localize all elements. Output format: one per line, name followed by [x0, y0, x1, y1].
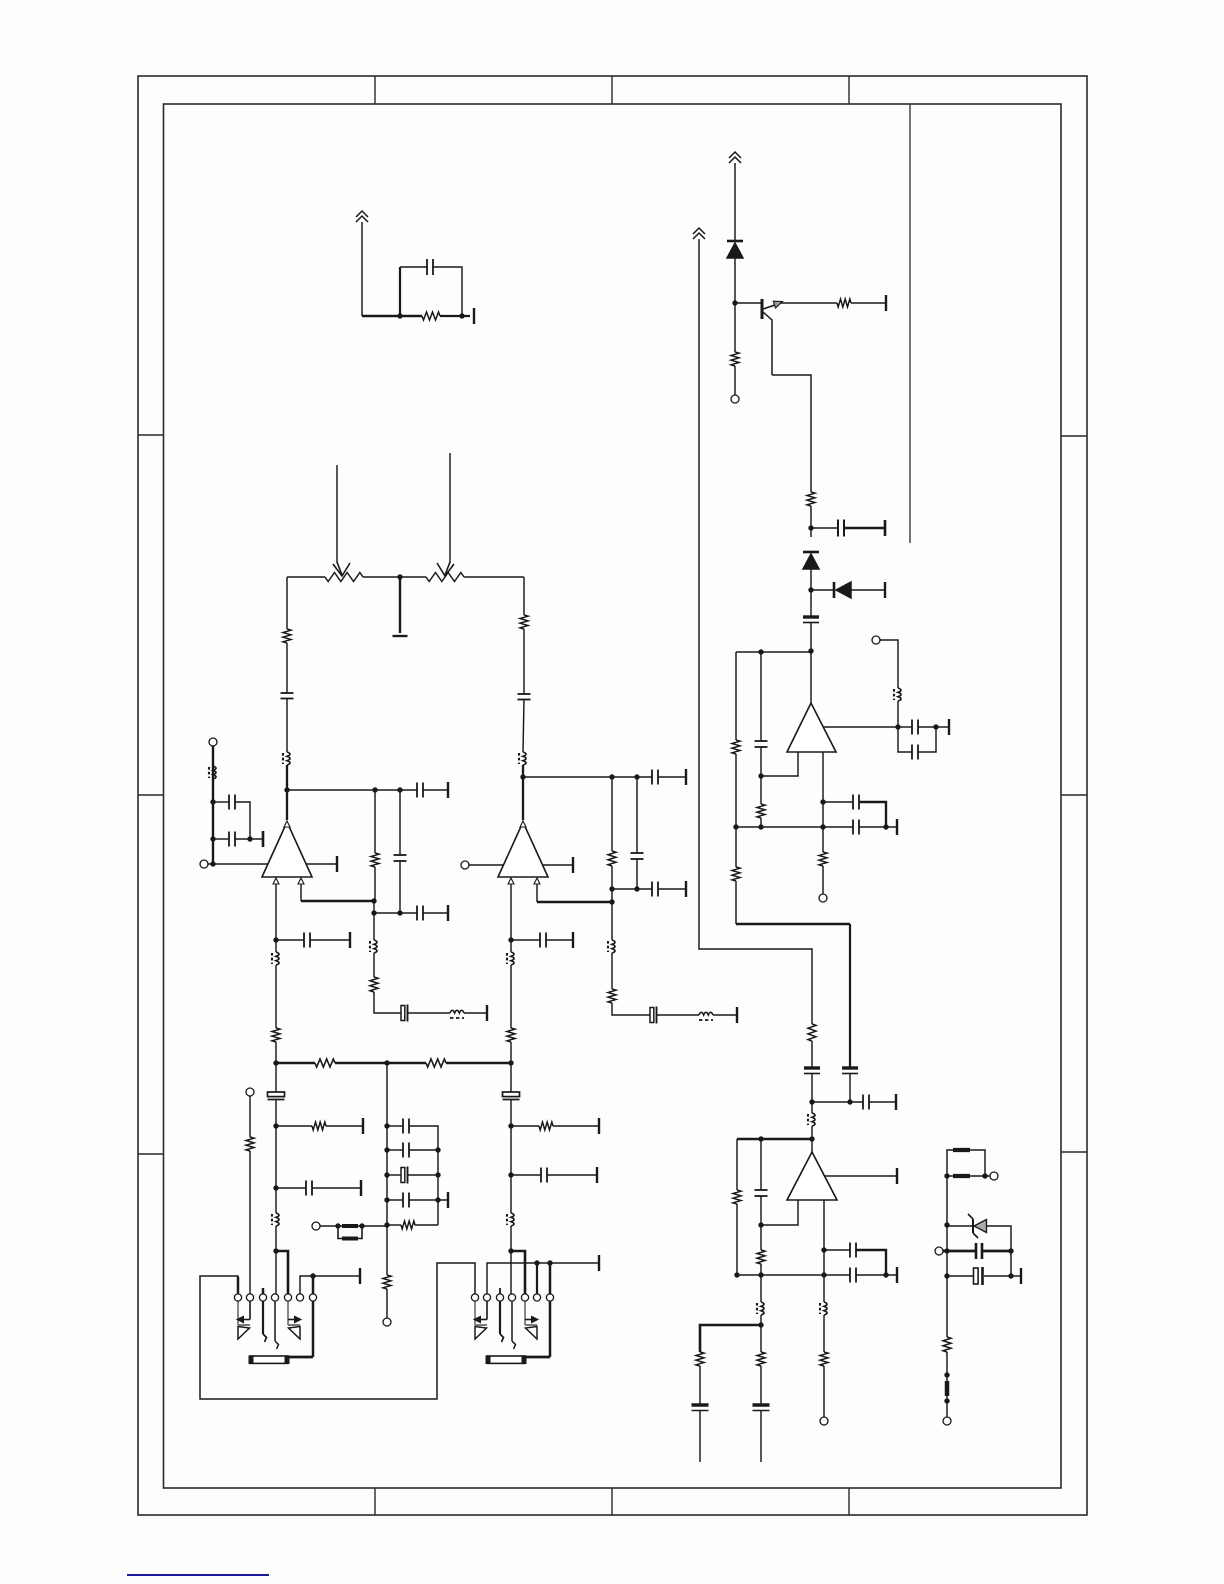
jack pin7 sleeve wire	[549, 1263, 552, 1357]
stub wire	[262, 1288, 265, 1294]
wire	[312, 1187, 361, 1189]
jumper wire	[276, 1251, 288, 1294]
terminal stub	[896, 1267, 898, 1283]
capacitor C9 polarized	[804, 1066, 820, 1069]
resistor R25	[312, 1122, 326, 1130]
zener diode D4	[948, 1225, 973, 1227]
rail terminal	[393, 635, 408, 637]
capacitor C3 polarized	[803, 615, 819, 618]
wire	[810, 622, 812, 652]
terminal stub	[349, 932, 351, 948]
resistor R29	[539, 1122, 553, 1130]
wire	[812, 1101, 863, 1103]
crystal X3	[401, 1168, 405, 1183]
capacitor C30	[631, 852, 644, 854]
terminal T	[819, 894, 827, 902]
terminal stub	[895, 1094, 897, 1110]
capacitor C16 polarized	[753, 1403, 770, 1406]
pin marker	[284, 821, 290, 827]
wire	[844, 527, 885, 529]
node	[808, 525, 813, 530]
node	[435, 1172, 440, 1177]
node	[883, 824, 888, 829]
terminal T input	[461, 861, 469, 869]
node	[384, 1222, 389, 1227]
wire	[310, 939, 350, 941]
capacitor C4	[911, 720, 913, 735]
wire	[823, 801, 853, 803]
wire	[249, 1151, 251, 1294]
jack contact triangle 2	[288, 1324, 300, 1326]
resistor R8	[808, 1024, 816, 1041]
wire output	[542, 864, 573, 866]
diode D1	[727, 240, 743, 243]
resistor R27	[401, 1221, 415, 1229]
ferrite bead L9	[523, 752, 526, 765]
node	[384, 1060, 389, 1065]
wire	[409, 1126, 438, 1225]
wire	[943, 1250, 976, 1253]
node	[371, 910, 376, 915]
node	[944, 1273, 949, 1278]
capacitor C1	[426, 259, 428, 275]
wire	[440, 315, 470, 317]
op-amp U2	[498, 822, 548, 877]
resistor R11	[757, 1250, 765, 1264]
wire	[713, 1014, 737, 1016]
node	[335, 1223, 340, 1228]
jack pin circles	[471, 1294, 478, 1301]
wire	[898, 726, 912, 728]
inductor L5	[953, 1148, 970, 1152]
resistor R13	[757, 1352, 765, 1366]
terminal stub	[896, 819, 898, 835]
ferrite bead L17	[276, 1213, 279, 1226]
terminal stub	[685, 769, 687, 785]
jack tip contact gray	[474, 1301, 476, 1325]
border tick bottom 3	[848, 1488, 850, 1515]
capacitor C37	[540, 1168, 542, 1183]
wire	[880, 640, 898, 688]
node	[273, 1060, 278, 1065]
terminal stub	[896, 1168, 898, 1184]
wire	[300, 1276, 360, 1294]
capacitor C32	[305, 1181, 307, 1196]
wire	[408, 1012, 450, 1014]
capacitor C5	[911, 745, 913, 760]
bus wire	[276, 1062, 315, 1065]
pin marker	[508, 878, 514, 884]
resistor R19	[370, 977, 378, 992]
rail wire	[287, 576, 325, 578]
center tap wire	[399, 577, 401, 633]
wire bus	[737, 1274, 850, 1276]
wire	[810, 590, 812, 617]
border tick left 2	[138, 794, 164, 796]
ferrite bead L2	[812, 1113, 815, 1126]
node	[210, 836, 215, 841]
capacitor C31 polarized	[268, 1092, 285, 1097]
node	[732, 300, 737, 305]
wire	[810, 652, 812, 703]
capacitor C11	[862, 1095, 864, 1110]
resistor R23	[315, 1059, 335, 1067]
node	[508, 1248, 513, 1253]
capacitor C22	[651, 770, 653, 785]
wire	[611, 777, 613, 851]
wire	[735, 754, 737, 867]
wire	[409, 1199, 448, 1201]
terminal T	[209, 738, 217, 746]
op-amp U4	[787, 1152, 837, 1200]
terminal T	[312, 1222, 320, 1230]
terminal T	[990, 1172, 998, 1180]
wire	[522, 765, 524, 820]
wire	[399, 267, 401, 316]
node	[609, 899, 614, 904]
wire	[736, 1204, 738, 1275]
wire	[213, 838, 229, 840]
title column line	[909, 104, 911, 543]
wire	[464, 576, 524, 578]
node	[384, 1147, 389, 1152]
border tick top 3	[848, 76, 850, 104]
wire	[657, 1014, 699, 1016]
wire	[511, 939, 540, 941]
wire output	[823, 726, 898, 728]
capacitor C13	[849, 1268, 851, 1283]
pin marker	[534, 878, 540, 884]
node	[758, 1136, 763, 1141]
jack contact triangle 1	[475, 1324, 487, 1326]
terminal stub	[447, 905, 449, 921]
wire	[275, 1226, 277, 1294]
wire	[849, 1073, 851, 1102]
node	[1008, 1273, 1013, 1278]
wire	[699, 1410, 701, 1462]
wire	[212, 746, 214, 864]
resistor R1	[422, 312, 440, 320]
node	[508, 937, 513, 942]
wire	[276, 1125, 312, 1127]
jack ring contact gray	[287, 1301, 289, 1325]
wire	[735, 881, 737, 924]
wire	[537, 901, 612, 904]
wire	[387, 1149, 403, 1151]
resistor R9	[820, 1352, 828, 1366]
node	[944, 1372, 949, 1377]
wire	[536, 1263, 538, 1294]
wire	[700, 1325, 761, 1352]
node	[435, 1147, 440, 1152]
crystal X1	[401, 1006, 405, 1021]
wire	[811, 1041, 813, 1068]
resistor R21	[608, 851, 616, 866]
node	[944, 1173, 949, 1178]
node	[821, 1272, 826, 1277]
capacitor C35	[402, 1193, 404, 1208]
border tick top 1	[374, 76, 376, 104]
wire pin	[761, 752, 798, 776]
resistor R5	[732, 740, 740, 754]
jumper wire	[511, 1251, 525, 1294]
wire	[851, 302, 886, 304]
capacitor C8	[852, 795, 854, 810]
resistor R15	[283, 629, 291, 643]
potentiometer VR1	[325, 573, 363, 582]
ferrite bead L10	[213, 766, 216, 779]
wire	[856, 1274, 897, 1276]
jack pin7 sleeve wire	[312, 1276, 315, 1357]
wire	[361, 222, 363, 316]
wire	[760, 1196, 762, 1250]
inductor loop wire	[947, 1150, 953, 1176]
jack ring contact gray	[524, 1301, 526, 1325]
node	[609, 886, 614, 891]
wire	[737, 1138, 812, 1141]
capacitor C2	[837, 520, 839, 537]
wire	[547, 1174, 597, 1176]
node	[397, 910, 402, 915]
jack stub	[237, 1277, 240, 1293]
resistor R20	[507, 1028, 515, 1042]
jack sleeve body	[251, 1356, 288, 1363]
jack contact triangle 2	[525, 1324, 537, 1326]
wire	[523, 776, 652, 778]
wire pin	[300, 884, 302, 901]
node	[982, 1173, 987, 1178]
jack switch arrow right	[525, 1319, 533, 1321]
wire	[409, 1149, 438, 1151]
wire	[811, 1073, 813, 1113]
wire	[734, 366, 736, 395]
terminal T	[872, 636, 880, 644]
capacitor C27	[394, 854, 407, 856]
wire	[760, 1275, 762, 1302]
terminal stub	[572, 932, 574, 948]
node	[534, 1260, 539, 1265]
capacitor C24	[228, 832, 230, 847]
wire	[849, 924, 851, 1068]
wire	[822, 866, 824, 894]
capacitor C36 polarized	[503, 1092, 520, 1097]
wire	[523, 629, 525, 694]
wire	[810, 569, 812, 590]
wire	[374, 790, 376, 853]
border tick top 2	[611, 76, 613, 104]
node	[820, 824, 825, 829]
op-amp U3	[787, 703, 836, 752]
node	[508, 1172, 513, 1177]
wire	[387, 1199, 403, 1201]
wire input	[208, 863, 268, 865]
wire	[399, 861, 401, 913]
terminal stub	[447, 782, 449, 798]
node	[273, 1123, 278, 1128]
node	[384, 1197, 389, 1202]
wire	[386, 1289, 388, 1318]
wire	[408, 1174, 438, 1176]
terminal stub	[447, 1192, 449, 1208]
wire	[235, 838, 263, 840]
node	[273, 937, 278, 942]
pin marker	[520, 821, 526, 827]
wire	[636, 777, 638, 853]
wire	[811, 1126, 813, 1152]
wire	[780, 302, 837, 304]
transistor Q1	[761, 299, 764, 319]
node	[508, 1060, 513, 1065]
border tick left 3	[138, 1153, 164, 1155]
wire	[859, 802, 886, 827]
jack pin circles	[234, 1294, 241, 1301]
node	[944, 1222, 949, 1227]
pin marker	[298, 878, 304, 884]
wire	[736, 1139, 738, 1190]
wire	[824, 1249, 850, 1251]
capacitor C21	[518, 693, 531, 695]
jack contact lever 1	[499, 1301, 501, 1334]
wire	[387, 1224, 401, 1226]
wire	[760, 1264, 762, 1275]
wire	[658, 888, 686, 890]
node	[284, 787, 289, 792]
node	[547, 1260, 552, 1265]
capacitor C25	[303, 933, 305, 948]
node	[397, 574, 402, 579]
wire	[449, 453, 451, 563]
wire	[811, 589, 834, 591]
wire	[612, 1003, 650, 1015]
power arrow P1	[356, 211, 368, 217]
wire	[611, 866, 613, 940]
node	[384, 1172, 389, 1177]
node	[273, 1185, 278, 1190]
wire	[373, 901, 375, 940]
wire	[523, 699, 524, 752]
wire	[320, 1225, 342, 1227]
wire bus	[736, 826, 853, 828]
terminal stub	[262, 831, 265, 847]
terminal T input	[200, 860, 208, 868]
ferrite bead L3	[824, 1302, 827, 1315]
node	[634, 774, 639, 779]
wire	[386, 1063, 388, 1275]
wire	[810, 506, 812, 537]
ferrite bead L1	[898, 688, 901, 701]
capacitor C12	[755, 1189, 768, 1191]
wire input	[469, 864, 504, 866]
wire	[851, 589, 885, 591]
wire	[399, 790, 401, 855]
wire	[986, 1226, 1011, 1276]
node	[809, 1136, 814, 1141]
node	[359, 1223, 364, 1228]
stub wire	[499, 1288, 501, 1294]
wire	[275, 1042, 277, 1063]
wire	[772, 375, 811, 492]
wire	[897, 701, 899, 727]
terminal stub	[948, 719, 950, 735]
wire	[464, 1012, 487, 1014]
wire	[946, 1176, 948, 1337]
terminal stub	[598, 1118, 600, 1134]
wire pin	[510, 884, 512, 952]
capacitor C17	[975, 1243, 978, 1259]
node	[459, 313, 464, 318]
wire	[510, 1063, 512, 1092]
terminal T	[731, 395, 739, 403]
wire	[487, 1263, 599, 1294]
wire	[511, 1125, 539, 1127]
terminal stub	[359, 1268, 361, 1284]
node	[247, 836, 252, 841]
wire	[275, 1100, 277, 1213]
diode D2	[803, 551, 819, 554]
wire	[546, 939, 573, 941]
wire	[276, 1187, 306, 1189]
resistor R6	[732, 867, 740, 881]
jack tip contact gray	[237, 1301, 239, 1325]
jack switch arrow left	[249, 1301, 251, 1320]
wire	[823, 1315, 825, 1352]
resistor R10	[733, 1190, 741, 1204]
inner border frame	[164, 104, 1062, 1488]
terminal T	[383, 1318, 391, 1326]
wire	[760, 818, 762, 827]
node	[435, 1197, 440, 1202]
wire	[553, 1125, 599, 1127]
node	[310, 1273, 315, 1278]
border tick bottom 1	[374, 1488, 376, 1515]
inductor loop wire	[338, 1226, 342, 1239]
node	[809, 1099, 814, 1104]
capacitor C33	[402, 1119, 404, 1134]
wire	[286, 698, 288, 752]
wire	[374, 992, 401, 1013]
ferrite bead L11	[276, 952, 279, 965]
wire	[760, 1315, 762, 1352]
node	[758, 773, 763, 778]
wire	[760, 1410, 762, 1462]
diode D3	[833, 582, 836, 598]
inductor L7	[945, 1381, 950, 1396]
wire	[823, 1366, 825, 1417]
hyperlink underline	[127, 1574, 269, 1576]
capacitor C14	[849, 1243, 851, 1258]
resistor R18	[371, 853, 379, 867]
node	[371, 898, 376, 903]
wire	[612, 888, 652, 890]
terminal stub	[1020, 1268, 1022, 1284]
capacitor C20	[416, 783, 418, 798]
node	[758, 824, 763, 829]
node	[758, 1272, 763, 1277]
wire pin	[536, 884, 538, 902]
node	[821, 1247, 826, 1252]
pin marker	[273, 878, 279, 884]
border tick left 1	[138, 434, 164, 436]
wire	[918, 726, 936, 728]
jack switch arrow left	[486, 1301, 488, 1320]
terminal T	[935, 1247, 943, 1255]
capacitor C19	[281, 692, 294, 694]
wire	[760, 1366, 762, 1404]
wire pin	[275, 884, 277, 952]
resistor R7	[757, 804, 765, 818]
terminal stub	[360, 1180, 362, 1196]
terminal stub	[572, 857, 574, 873]
